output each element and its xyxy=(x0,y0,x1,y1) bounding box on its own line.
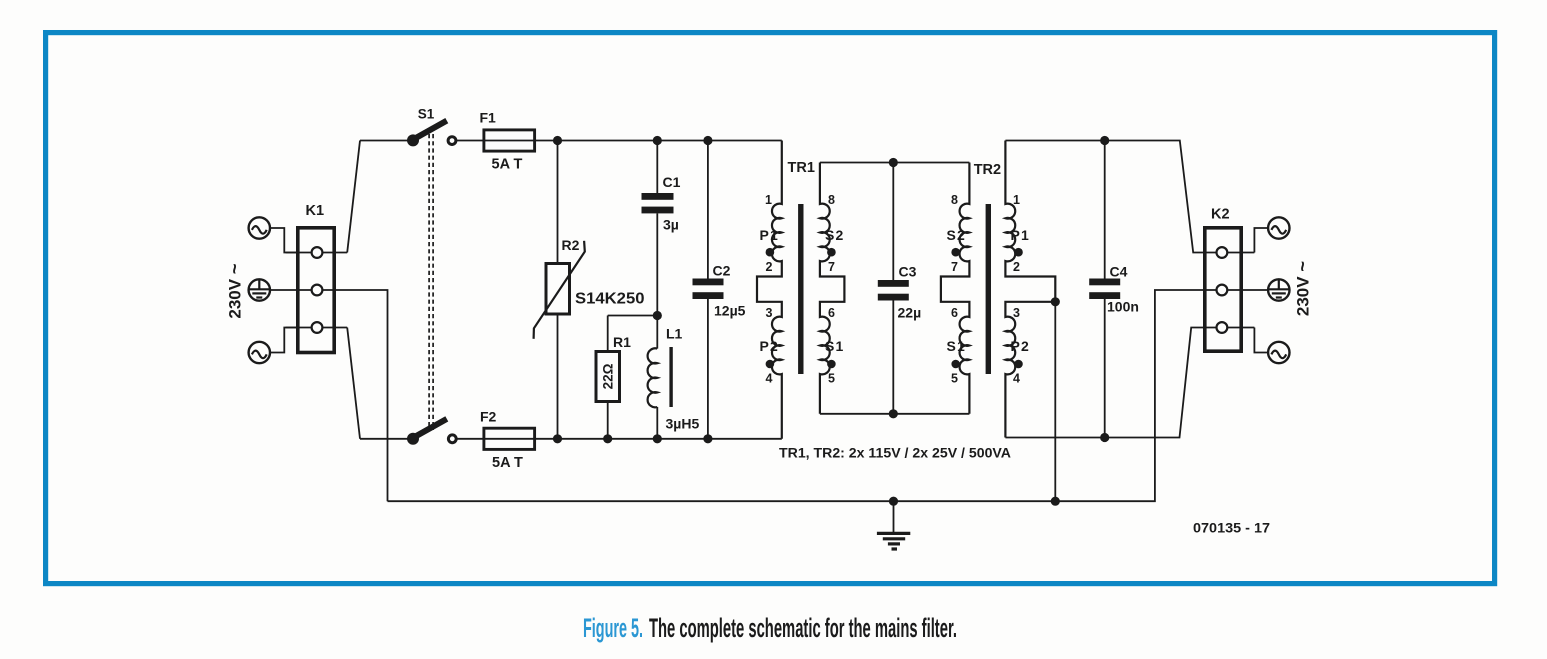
node bottom bus / R1 xyxy=(603,434,612,443)
winding polarity dot xyxy=(1014,248,1023,257)
svg-text:7: 7 xyxy=(951,260,958,274)
svg-text:S2: S2 xyxy=(825,227,845,243)
transformer TR1 primary winding xyxy=(757,141,782,439)
winding polarity dot xyxy=(951,360,960,369)
capacitor C2 xyxy=(693,141,746,439)
node top bus / C4 xyxy=(1100,136,1109,145)
switch S1 pole a xyxy=(407,107,456,147)
inductor L1 xyxy=(648,316,700,439)
wire S1b to F2 and bottom bus to TR1 xyxy=(456,438,782,440)
wire secondary top bus xyxy=(820,162,970,164)
node bottom bus / C2 xyxy=(703,434,712,443)
svg-text:1: 1 xyxy=(1013,193,1020,207)
svg-text:L1: L1 xyxy=(666,326,683,342)
svg-text:230V ~: 230V ~ xyxy=(1292,261,1313,316)
svg-text:1: 1 xyxy=(765,193,772,207)
node secondary top / C3 xyxy=(889,158,898,167)
switch S1 pole b xyxy=(407,419,456,445)
ground symbol xyxy=(877,501,910,549)
node top bus / C2 xyxy=(703,136,712,145)
terminal pin K1-1 xyxy=(312,247,323,258)
svg-text:22µ: 22µ xyxy=(898,305,922,321)
winding polarity dot xyxy=(766,360,775,369)
svg-text:F2: F2 xyxy=(480,409,497,425)
caption xyxy=(583,613,957,643)
fuse F1 xyxy=(480,110,535,173)
capacitor C4 xyxy=(1089,141,1139,438)
svg-text:12µ5: 12µ5 xyxy=(714,303,746,319)
node top bus / C1 xyxy=(653,136,662,145)
svg-text:3: 3 xyxy=(1013,306,1020,320)
wire diagonal K1 pin3 down to bottom bus xyxy=(347,328,360,439)
node bottom bus / C4 xyxy=(1100,433,1109,442)
svg-text:230V ~: 230V ~ xyxy=(224,263,245,318)
svg-text:3: 3 xyxy=(766,306,773,320)
protective earth symbol left xyxy=(249,279,270,300)
wire secondary bottom bus xyxy=(820,413,970,415)
svg-text:TR2: TR2 xyxy=(974,162,1001,178)
connector K2 xyxy=(1205,207,1241,352)
svg-text:P1: P1 xyxy=(760,227,780,243)
node earth bus / TR2 tap xyxy=(1051,497,1060,506)
winding polarity dot xyxy=(951,248,960,257)
fuse F2 xyxy=(480,409,535,472)
svg-text:TR1: TR1 xyxy=(788,160,815,176)
svg-text:Figure 5.The complete schemati: Figure 5.The complete schematic for the … xyxy=(583,613,957,643)
svg-text:8: 8 xyxy=(828,193,835,207)
svg-text:P2: P2 xyxy=(760,338,780,354)
svg-text:3µH5: 3µH5 xyxy=(666,416,700,432)
svg-text:5: 5 xyxy=(828,372,835,386)
transformer TR1 secondary winding xyxy=(820,163,845,414)
node secondary bottom / C3 xyxy=(889,409,898,418)
svg-text:P1: P1 xyxy=(1011,227,1031,243)
svg-text:22Ω: 22Ω xyxy=(601,363,616,389)
svg-text:6: 6 xyxy=(828,306,835,320)
AC source symbol left bottom xyxy=(249,328,298,364)
svg-text:2: 2 xyxy=(766,260,773,274)
connector K1 xyxy=(298,203,334,353)
svg-text:S14K250: S14K250 xyxy=(575,291,645,308)
svg-text:P2: P2 xyxy=(1011,338,1031,354)
winding polarity dot xyxy=(766,248,775,257)
svg-text:2: 2 xyxy=(1013,260,1020,274)
svg-text:7: 7 xyxy=(828,260,835,274)
wire top bus to S1 xyxy=(360,140,412,142)
svg-text:5A T: 5A T xyxy=(492,157,523,173)
wire S1 to F1 and top bus to TR1 xyxy=(456,140,782,142)
node earth bus / ground xyxy=(889,497,898,506)
node top bus / R2 xyxy=(553,136,562,145)
svg-text:C3: C3 xyxy=(899,264,917,280)
svg-text:K2: K2 xyxy=(1211,207,1230,223)
wire earth bus xyxy=(388,290,1269,501)
wire K1 pin3 row xyxy=(286,327,348,329)
AC source symbol right bottom xyxy=(1254,328,1289,364)
transformer TR2 secondary winding xyxy=(941,163,970,414)
wire K1 pin2 row to earth dropper xyxy=(270,290,387,501)
terminal pin K1-2 xyxy=(312,285,323,296)
svg-text:TR1, TR2: 2x 115V / 2x 25V / 5: TR1, TR2: 2x 115V / 2x 25V / 500VA xyxy=(779,446,1011,461)
wire bottom bus TR2 to K2 xyxy=(1005,328,1254,438)
winding polarity dot xyxy=(827,360,836,369)
svg-text:S1: S1 xyxy=(825,338,845,354)
AC source symbol left top xyxy=(249,217,298,252)
svg-text:5: 5 xyxy=(951,372,958,386)
AC source symbol right top xyxy=(1254,217,1289,252)
transformer TR1 core xyxy=(798,204,803,374)
wire top bus TR2 to K2 xyxy=(1005,141,1254,253)
svg-text:R1: R1 xyxy=(613,334,631,350)
winding polarity dot xyxy=(827,248,836,257)
wire R1 branch xyxy=(608,315,658,317)
svg-text:5A T: 5A T xyxy=(492,455,523,471)
svg-text:4: 4 xyxy=(766,372,773,386)
node TR2 centre tap xyxy=(1051,297,1060,306)
svg-text:3µ: 3µ xyxy=(663,217,679,233)
terminal pin K2-3 xyxy=(1217,322,1228,333)
svg-text:S1: S1 xyxy=(947,338,967,354)
svg-text:C2: C2 xyxy=(713,263,731,279)
svg-text:4: 4 xyxy=(1013,372,1020,386)
wire diagonal K1 pin1 up to top bus xyxy=(347,141,360,253)
protective earth symbol right xyxy=(1268,279,1289,300)
svg-text:S1: S1 xyxy=(418,107,435,122)
svg-text:070135 - 17: 070135 - 17 xyxy=(1193,520,1270,536)
svg-text:C1: C1 xyxy=(663,174,681,190)
svg-text:F1: F1 xyxy=(480,110,497,126)
node C1 / L1 / R1 xyxy=(653,311,662,320)
switch S1 linkage dashed xyxy=(429,134,433,430)
varistor R2 xyxy=(534,141,645,439)
wire K1 pin1 row xyxy=(286,252,348,254)
node bottom bus / R2 xyxy=(553,434,562,443)
terminal pin K2-2 xyxy=(1217,285,1228,296)
terminal pin K1-3 xyxy=(312,322,323,333)
node bottom bus / L1 xyxy=(653,434,662,443)
svg-text:100n: 100n xyxy=(1107,299,1139,315)
svg-text:8: 8 xyxy=(951,193,958,207)
wire bottom bus to S1b xyxy=(360,438,413,440)
capacitor C3 xyxy=(878,163,921,414)
terminal pin K2-1 xyxy=(1217,247,1228,258)
svg-text:K1: K1 xyxy=(306,203,325,219)
svg-text:R2: R2 xyxy=(562,237,580,253)
svg-text:6: 6 xyxy=(951,306,958,320)
winding polarity dot xyxy=(1014,360,1023,369)
transformer TR2 primary winding xyxy=(1005,141,1055,438)
wire TR2 centre tap to earth bus xyxy=(1054,302,1056,501)
svg-text:C4: C4 xyxy=(1110,264,1128,280)
transformer TR2 core xyxy=(986,204,991,374)
resistor R1 xyxy=(596,316,631,439)
svg-text:S2: S2 xyxy=(947,227,967,243)
capacitor C1 xyxy=(642,141,681,316)
